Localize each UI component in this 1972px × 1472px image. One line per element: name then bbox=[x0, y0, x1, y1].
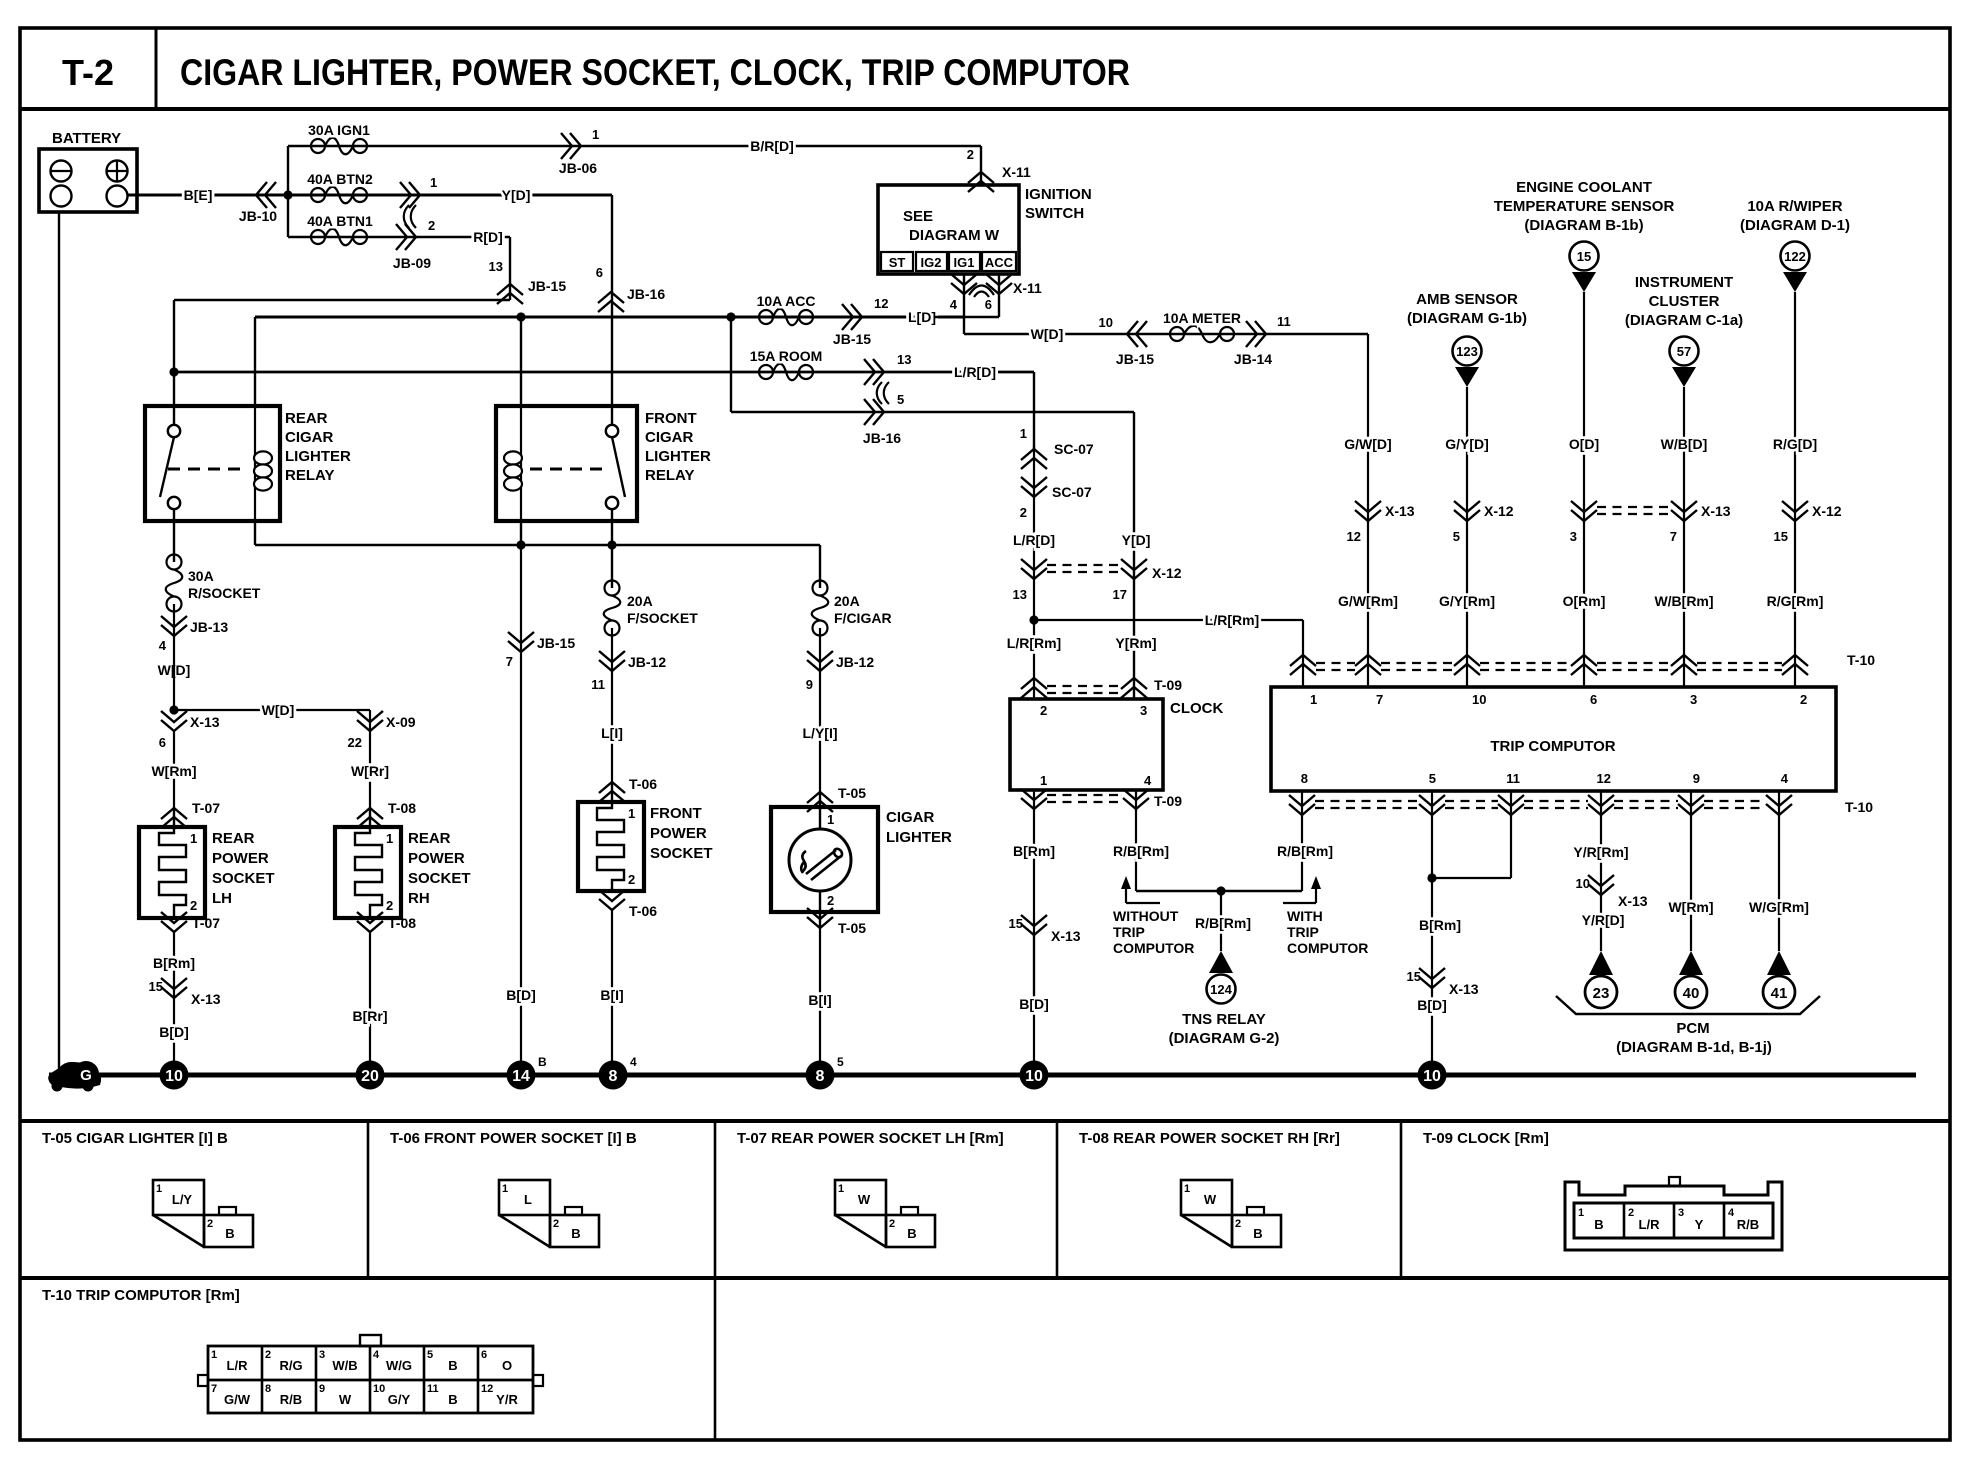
ground point 10 trip bbox=[1418, 1061, 1447, 1090]
fuse 10A ACC bbox=[757, 293, 816, 325]
wire Y[D] clock drop bbox=[1133, 412, 1135, 699]
svg-text:2: 2 bbox=[827, 893, 834, 908]
header T-07 bbox=[737, 1130, 1004, 1147]
svg-text:3: 3 bbox=[1690, 692, 1697, 707]
svg-text:1: 1 bbox=[1184, 1183, 1190, 1195]
svg-text:15: 15 bbox=[1577, 249, 1591, 264]
svg-text:WITH: WITH bbox=[1287, 908, 1323, 924]
connector JB-13 pin 4 bbox=[159, 616, 229, 653]
wire L/R junction drop bbox=[1033, 579, 1035, 699]
rear power socket LH label bbox=[212, 830, 275, 907]
svg-text:1: 1 bbox=[827, 812, 834, 827]
connector JB-06 pin 1 on BTN2 row bbox=[400, 175, 437, 208]
connector link dashes T-09 upper bbox=[1047, 686, 1121, 693]
connector T-05 upper bbox=[807, 785, 866, 812]
svg-text:JB-09: JB-09 bbox=[393, 255, 431, 271]
connector X-13 pin 15 bbox=[149, 978, 221, 1007]
circle ref 40 PCM bbox=[1675, 976, 1707, 1008]
wire label L/R[D] column bbox=[1013, 497, 1055, 579]
svg-text:15: 15 bbox=[1774, 529, 1788, 544]
svg-text:T-09: T-09 bbox=[1154, 677, 1182, 693]
svg-text:ENGINE COOLANT: ENGINE COOLANT bbox=[1516, 179, 1652, 196]
svg-text:2: 2 bbox=[1040, 703, 1047, 718]
svg-text:SOCKET: SOCKET bbox=[650, 845, 713, 862]
svg-text:LH: LH bbox=[212, 890, 232, 907]
svg-text:L/R[Rm]: L/R[Rm] bbox=[1205, 612, 1259, 628]
svg-text:3: 3 bbox=[1140, 703, 1147, 718]
svg-text:SEE: SEE bbox=[903, 208, 933, 225]
connector X-13 pin 7 bbox=[1670, 501, 1731, 544]
svg-text:8: 8 bbox=[1301, 771, 1308, 786]
wire label B[Rm] pin5 bbox=[1419, 917, 1461, 933]
svg-text:3: 3 bbox=[319, 1349, 325, 1361]
triangle TNS relay bbox=[1209, 951, 1233, 973]
svg-text:T-10 TRIP COMPUTOR [Rm]: T-10 TRIP COMPUTOR [Rm] bbox=[42, 1287, 240, 1304]
svg-text:W: W bbox=[858, 1192, 871, 1207]
svg-text:T-06 FRONT POWER SOCKET [I] B: T-06 FRONT POWER SOCKET [I] B bbox=[390, 1130, 637, 1147]
svg-text:W: W bbox=[339, 1392, 352, 1407]
svg-text:Y/R: Y/R bbox=[496, 1392, 518, 1407]
svg-text:L/R[Rm]: L/R[Rm] bbox=[1007, 635, 1061, 651]
circle ref 23 PCM bbox=[1585, 976, 1617, 1008]
node front switch bottom junction bbox=[607, 540, 616, 549]
svg-text:14: 14 bbox=[512, 1068, 530, 1085]
header T-08 bbox=[1079, 1130, 1340, 1147]
svg-text:G/W[D]: G/W[D] bbox=[1344, 436, 1391, 452]
wire trip pin12 column bbox=[1600, 815, 1602, 951]
wire R/B junction row bbox=[1136, 890, 1302, 892]
svg-text:PCM: PCM bbox=[1676, 1020, 1709, 1037]
svg-text:JB-12: JB-12 bbox=[836, 654, 874, 670]
relay K1 label bbox=[285, 410, 351, 484]
connector T-06 front power socket pinout bbox=[499, 1180, 599, 1247]
svg-text:B: B bbox=[907, 1226, 916, 1241]
svg-text:11: 11 bbox=[427, 1383, 439, 1395]
svg-text:DIAGRAM W: DIAGRAM W bbox=[909, 227, 1000, 244]
svg-text:10: 10 bbox=[1472, 692, 1486, 707]
ground point 8 front socket bbox=[599, 1055, 638, 1090]
svg-text:3: 3 bbox=[1570, 529, 1577, 544]
connector table divider T05/T06 bbox=[367, 1121, 370, 1278]
svg-text:X-13: X-13 bbox=[1618, 893, 1648, 909]
cigar lighter label bbox=[886, 809, 952, 846]
connector SC-07 pin 1 bbox=[1020, 426, 1094, 469]
svg-text:4: 4 bbox=[1144, 773, 1152, 788]
svg-text:LIGHTER: LIGHTER bbox=[645, 448, 711, 465]
wire rear relay feed horizontal bbox=[174, 299, 510, 301]
svg-text:13: 13 bbox=[1013, 587, 1027, 602]
trip computor top pin numbers bbox=[1310, 692, 1807, 707]
svg-text:2: 2 bbox=[1020, 505, 1027, 520]
svg-text:B: B bbox=[448, 1392, 457, 1407]
svg-text:9: 9 bbox=[1693, 771, 1700, 786]
svg-text:RELAY: RELAY bbox=[285, 467, 334, 484]
svg-text:5: 5 bbox=[1429, 771, 1436, 786]
svg-text:41: 41 bbox=[1771, 985, 1788, 1002]
svg-text:W/G: W/G bbox=[386, 1358, 412, 1373]
svg-text:JB-15: JB-15 bbox=[528, 278, 566, 294]
svg-text:T-10: T-10 bbox=[1845, 799, 1873, 815]
arrow up without trip computor bbox=[1121, 876, 1160, 903]
svg-text:CLUSTER: CLUSTER bbox=[1649, 293, 1720, 310]
wire fuse to JB-13 bbox=[173, 604, 175, 636]
svg-text:B[D]: B[D] bbox=[1417, 997, 1447, 1013]
connector T-05 lower bbox=[807, 908, 866, 936]
connector T-10 lower row bbox=[1289, 791, 1873, 815]
svg-text:L/Y: L/Y bbox=[172, 1192, 193, 1207]
fuse 30A IGN1 bbox=[308, 122, 370, 154]
svg-text:Y: Y bbox=[1695, 1217, 1704, 1232]
svg-text:LIGHTER: LIGHTER bbox=[886, 829, 952, 846]
svg-text:(DIAGRAM C-1a): (DIAGRAM C-1a) bbox=[1625, 312, 1743, 329]
svg-text:CIGAR LIGHTER, POWER SOCKET, C: CIGAR LIGHTER, POWER SOCKET, CLOCK, TRIP… bbox=[180, 52, 1130, 93]
wire W[D] meter row bbox=[964, 333, 1368, 335]
trip computor U1 bbox=[1271, 687, 1836, 791]
connector X-09 pin 22 bbox=[348, 710, 416, 750]
svg-text:ST: ST bbox=[889, 255, 906, 270]
svg-text:L/R: L/R bbox=[1639, 1217, 1661, 1232]
svg-text:20A: 20A bbox=[834, 593, 860, 609]
connector T-09 lower pin1 bbox=[1021, 789, 1047, 809]
svg-text:REAR: REAR bbox=[285, 410, 328, 427]
svg-text:W/B[Rm]: W/B[Rm] bbox=[1654, 593, 1713, 609]
svg-text:6: 6 bbox=[159, 735, 166, 750]
svg-text:CIGAR: CIGAR bbox=[645, 429, 694, 446]
sensor ref 122 rear wiper fuse bbox=[1740, 198, 1850, 292]
connector JB-16 pin 6 bbox=[596, 265, 666, 312]
wire 15A ROOM row bbox=[174, 371, 1034, 374]
connector T-09 upper pin2 bbox=[1021, 678, 1047, 698]
connector T-07 upper bbox=[161, 800, 220, 828]
triangle PCM 41 bbox=[1767, 951, 1791, 975]
wire G/W column bbox=[1367, 334, 1369, 687]
connector T-10 trip computor pinout bbox=[198, 1335, 543, 1413]
svg-text:L: L bbox=[524, 1192, 532, 1207]
relay K1 rear cigar lighter relay bbox=[145, 406, 280, 521]
connector X-13 pin 12 bbox=[1347, 501, 1415, 544]
svg-text:3: 3 bbox=[1678, 1207, 1684, 1219]
connector JB-15 pin 7 bbox=[506, 632, 576, 669]
ignition switch cell IG2 bbox=[916, 252, 947, 271]
wire label W/B[D] bbox=[1661, 436, 1708, 452]
wire fsocket fuse to JB-12 bbox=[611, 628, 613, 671]
ignition switch cell ACC bbox=[982, 252, 1016, 271]
svg-text:15A ROOM: 15A ROOM bbox=[750, 348, 823, 364]
svg-text:R/B[Rm]: R/B[Rm] bbox=[1113, 843, 1169, 859]
connector JB-15 pin 10 bbox=[1099, 315, 1155, 367]
connector X-13 pin 10 bbox=[1576, 875, 1648, 909]
svg-text:W/B[D]: W/B[D] bbox=[1661, 436, 1708, 452]
ground symbol G car body bbox=[48, 1061, 101, 1092]
connector JB-06 pin 1 bbox=[559, 127, 599, 176]
svg-text:(DIAGRAM D-1): (DIAGRAM D-1) bbox=[1740, 217, 1850, 234]
wire label B/R[D] bbox=[750, 138, 794, 154]
ground point 14 bbox=[507, 1055, 548, 1090]
wire label L/R[D] bbox=[954, 364, 996, 380]
svg-text:L/R: L/R bbox=[227, 1358, 249, 1373]
svg-text:R/B[Rm]: R/B[Rm] bbox=[1195, 915, 1251, 931]
fuse 20A F/SOCKET bbox=[604, 581, 698, 636]
wire Y[D] drop to front relay bbox=[611, 195, 613, 425]
connector X-12 pin 15 bbox=[1774, 501, 1842, 544]
text without trip computor bbox=[1113, 908, 1194, 956]
connector X-12 pin 5 bbox=[1453, 501, 1514, 544]
connector link curl JB-06/JB-09 bbox=[404, 205, 416, 228]
svg-text:8: 8 bbox=[609, 1068, 618, 1085]
svg-text:JB-16: JB-16 bbox=[627, 286, 665, 302]
svg-text:10: 10 bbox=[1423, 1068, 1441, 1085]
wire W[D] branch to X-09 bbox=[174, 709, 370, 711]
svg-text:T-07: T-07 bbox=[192, 800, 220, 816]
wire label W[D] branch bbox=[262, 702, 295, 718]
ground point 20 RH socket bbox=[356, 1061, 385, 1090]
svg-text:FRONT: FRONT bbox=[645, 410, 697, 427]
svg-text:B[D]: B[D] bbox=[1019, 996, 1049, 1012]
ignition switch label bbox=[1025, 186, 1092, 222]
wire ignition pin6 drop bbox=[998, 274, 1000, 317]
cigar lighter box bbox=[771, 792, 878, 928]
svg-text:2: 2 bbox=[628, 872, 635, 887]
wire G/Y column bbox=[1466, 387, 1468, 687]
connector X-11 pin 2 bbox=[967, 147, 1031, 192]
svg-text:15: 15 bbox=[1009, 916, 1023, 931]
wire label B[D] 14 bbox=[506, 987, 536, 1003]
wire relay bus to ground 14 bbox=[520, 545, 522, 1061]
svg-text:1: 1 bbox=[156, 1183, 162, 1195]
wire fuse feeder bus bbox=[287, 146, 289, 237]
arrow up with trip computor bbox=[1283, 876, 1321, 903]
svg-text:X-13: X-13 bbox=[1701, 503, 1731, 519]
svg-text:1: 1 bbox=[502, 1183, 508, 1195]
svg-text:(DIAGRAM G-1b): (DIAGRAM G-1b) bbox=[1407, 310, 1527, 327]
wire label L/R[Rm] column bbox=[1007, 635, 1061, 651]
svg-text:40A BTN2: 40A BTN2 bbox=[307, 171, 373, 187]
wire W/B column bbox=[1683, 387, 1685, 687]
svg-text:4: 4 bbox=[630, 1055, 637, 1069]
node L/R[Rm] junction bbox=[1029, 615, 1038, 624]
clock box bbox=[1010, 699, 1163, 790]
ground point 8 cigar bbox=[806, 1055, 845, 1090]
svg-text:2: 2 bbox=[207, 1218, 213, 1230]
fuse 10A METER bbox=[1163, 310, 1241, 342]
svg-text:T-05: T-05 bbox=[838, 785, 866, 801]
svg-text:O: O bbox=[502, 1358, 512, 1373]
wire trip pin9 column bbox=[1668, 815, 1713, 951]
node room row tap bbox=[169, 367, 178, 376]
wire label W[D] bbox=[1031, 326, 1064, 342]
svg-text:JB-16: JB-16 bbox=[863, 430, 901, 446]
wire label R[D] bbox=[473, 229, 503, 245]
circle ref 124 TNS relay bbox=[1207, 975, 1236, 1004]
connector link dashes X-12 bbox=[1047, 565, 1121, 572]
wire JB-16 room branch row bbox=[731, 411, 1134, 413]
svg-text:AMB SENSOR: AMB SENSOR bbox=[1416, 291, 1518, 308]
connector X-13 pin 6 bbox=[159, 711, 220, 750]
svg-text:5: 5 bbox=[427, 1349, 433, 1361]
svg-text:R/G[D]: R/G[D] bbox=[1773, 436, 1817, 452]
wire label B[Rr] bbox=[353, 932, 388, 1061]
svg-text:FRONT: FRONT bbox=[650, 805, 702, 822]
svg-text:SC-07: SC-07 bbox=[1052, 484, 1092, 500]
connector X-13 pin 3 bbox=[1570, 501, 1597, 544]
node W[D] branch junction bbox=[169, 705, 178, 714]
svg-text:T-2: T-2 bbox=[62, 52, 114, 93]
svg-text:Y/R[D]: Y/R[D] bbox=[1582, 912, 1625, 928]
svg-text:30A: 30A bbox=[188, 568, 214, 584]
svg-text:JB-15: JB-15 bbox=[833, 331, 871, 347]
svg-text:5: 5 bbox=[1453, 529, 1460, 544]
svg-text:CIGAR: CIGAR bbox=[285, 429, 334, 446]
svg-text:1: 1 bbox=[386, 831, 393, 846]
connector JB-09 pin 2 bbox=[393, 218, 435, 271]
svg-text:BATTERY: BATTERY bbox=[52, 130, 121, 147]
svg-text:W[Rr]: W[Rr] bbox=[351, 763, 389, 779]
wire label B[Rm] bbox=[153, 932, 195, 998]
svg-text:(DIAGRAM B-1b): (DIAGRAM B-1b) bbox=[1524, 217, 1643, 234]
svg-text:R/B: R/B bbox=[280, 1392, 302, 1407]
svg-text:B[I]: B[I] bbox=[808, 992, 831, 1008]
svg-text:L[I]: L[I] bbox=[601, 725, 623, 741]
svg-text:X-12: X-12 bbox=[1484, 503, 1514, 519]
svg-text:11: 11 bbox=[591, 677, 605, 692]
svg-text:IG1: IG1 bbox=[954, 255, 975, 270]
svg-text:B[D]: B[D] bbox=[159, 1024, 189, 1040]
svg-text:4: 4 bbox=[950, 297, 958, 312]
svg-text:1: 1 bbox=[1578, 1207, 1584, 1219]
svg-text:B[E]: B[E] bbox=[184, 187, 213, 203]
svg-text:JB-15: JB-15 bbox=[1116, 351, 1154, 367]
svg-text:B[Rr]: B[Rr] bbox=[353, 1008, 388, 1024]
svg-text:X-13: X-13 bbox=[191, 991, 221, 1007]
svg-text:B: B bbox=[538, 1055, 547, 1069]
svg-text:1: 1 bbox=[1040, 773, 1047, 788]
connector T-08 lower bbox=[357, 912, 416, 932]
relay K2 label bbox=[645, 410, 711, 484]
wire clock pin4 drop bbox=[1135, 809, 1137, 891]
wire label Y[D] column bbox=[1122, 532, 1151, 548]
svg-text:JB-10: JB-10 bbox=[239, 208, 277, 224]
svg-text:5: 5 bbox=[837, 1055, 844, 1069]
svg-text:(DIAGRAM G-2): (DIAGRAM G-2) bbox=[1169, 1030, 1280, 1047]
svg-text:W: W bbox=[1204, 1192, 1217, 1207]
svg-text:TRIP COMPUTOR: TRIP COMPUTOR bbox=[1490, 738, 1615, 755]
svg-text:JB-15: JB-15 bbox=[537, 635, 575, 651]
connector T-08 rear power socket RH pinout bbox=[1181, 1180, 1281, 1247]
fuse 15A ROOM bbox=[750, 348, 823, 380]
svg-text:LIGHTER: LIGHTER bbox=[285, 448, 351, 465]
svg-text:2: 2 bbox=[553, 1218, 559, 1230]
svg-text:R/B[Rm]: R/B[Rm] bbox=[1277, 843, 1333, 859]
svg-text:30A IGN1: 30A IGN1 bbox=[308, 122, 370, 138]
battery B1 bbox=[39, 149, 137, 212]
svg-text:T-08: T-08 bbox=[388, 800, 416, 816]
title bar divider bbox=[155, 28, 158, 109]
rear power socket LH box bbox=[139, 808, 205, 918]
svg-text:20: 20 bbox=[361, 1068, 379, 1085]
svg-text:23: 23 bbox=[1593, 985, 1610, 1002]
connector JB-12 pin 11 bbox=[591, 651, 666, 692]
svg-text:L/R[D]: L/R[D] bbox=[1013, 532, 1055, 548]
fuse 20A F/CIGAR bbox=[812, 581, 892, 636]
svg-text:RH: RH bbox=[408, 890, 430, 907]
node front coil bottom junction bbox=[516, 540, 525, 549]
connector JB-10 bbox=[239, 182, 277, 224]
svg-text:WITHOUT: WITHOUT bbox=[1113, 908, 1179, 924]
svg-text:COMPUTOR: COMPUTOR bbox=[1113, 940, 1194, 956]
svg-text:POWER: POWER bbox=[212, 850, 269, 867]
node fuse bus junction bbox=[283, 190, 292, 199]
svg-text:7: 7 bbox=[506, 654, 513, 669]
svg-text:G: G bbox=[80, 1067, 92, 1084]
svg-text:13: 13 bbox=[489, 259, 503, 274]
connector X-12 pin 17 bbox=[1113, 559, 1182, 602]
node front coil junction bbox=[516, 312, 525, 321]
header T-10 bbox=[42, 1287, 240, 1304]
TNS relay label bbox=[1169, 1011, 1280, 1047]
connector T-06 upper bbox=[599, 776, 657, 802]
svg-text:G/Y: G/Y bbox=[388, 1392, 411, 1407]
svg-text:W[Rm]: W[Rm] bbox=[1668, 899, 1713, 915]
ignition switch cell ST bbox=[881, 252, 913, 271]
connector table divider T07/T08 bbox=[1056, 1121, 1059, 1278]
svg-text:B: B bbox=[1253, 1226, 1262, 1241]
svg-text:4: 4 bbox=[373, 1349, 380, 1361]
sensor ref 15 engine coolant temperature sensor bbox=[1494, 179, 1675, 292]
svg-text:TRIP: TRIP bbox=[1287, 924, 1319, 940]
svg-text:1: 1 bbox=[592, 127, 599, 142]
wire label L[I] bbox=[601, 671, 623, 782]
header T-09 bbox=[1423, 1130, 1549, 1147]
wire label O[Rm] bbox=[1563, 593, 1606, 609]
svg-text:T-06: T-06 bbox=[629, 903, 657, 919]
svg-text:1: 1 bbox=[190, 831, 197, 846]
wire label L/Y[I] bbox=[803, 671, 838, 792]
svg-text:B/R[D]: B/R[D] bbox=[750, 138, 794, 154]
svg-text:Y[D]: Y[D] bbox=[502, 187, 531, 203]
wire front coil ground drop bbox=[520, 521, 522, 545]
ground point 10 clock bbox=[1020, 1061, 1049, 1090]
wire label L/R[Rm] horizontal bbox=[1205, 612, 1259, 628]
wire battery positive B[E] bbox=[128, 194, 289, 197]
svg-text:L[D]: L[D] bbox=[908, 309, 936, 325]
connector JB-15 pin 13 room bbox=[864, 352, 911, 385]
wire R[D] drop bbox=[509, 237, 511, 300]
svg-text:T-05 CIGAR LIGHTER [I] B: T-05 CIGAR LIGHTER [I] B bbox=[42, 1130, 228, 1147]
wire label Y/R[D] bbox=[1582, 912, 1625, 928]
ignition switch cell IG1 bbox=[949, 252, 980, 271]
wire 40A BTN1 row bbox=[288, 236, 510, 238]
wire front switch to fuse bbox=[611, 509, 613, 588]
wire 40A BTN2 row Y[D] bbox=[288, 194, 612, 197]
svg-text:B: B bbox=[571, 1226, 580, 1241]
svg-text:4: 4 bbox=[1728, 1207, 1735, 1219]
svg-text:POWER: POWER bbox=[650, 825, 707, 842]
wire label G/W[Rm] bbox=[1338, 593, 1398, 609]
svg-text:10: 10 bbox=[1099, 315, 1113, 330]
svg-text:ACC: ACC bbox=[985, 255, 1014, 270]
wire label W[Rm] bbox=[151, 731, 196, 808]
front power socket label bbox=[650, 805, 713, 862]
svg-text:T-09 CLOCK [Rm]: T-09 CLOCK [Rm] bbox=[1423, 1130, 1549, 1147]
svg-text:X-12: X-12 bbox=[1152, 565, 1182, 581]
triangle PCM 40 bbox=[1679, 951, 1703, 975]
connector table mid rule bbox=[20, 1276, 1950, 1280]
svg-text:13: 13 bbox=[897, 352, 911, 367]
svg-text:T-07: T-07 bbox=[192, 915, 220, 931]
title index text T-2 bbox=[62, 52, 114, 93]
connector T-07 lower bbox=[161, 912, 220, 932]
svg-text:X-13: X-13 bbox=[1449, 981, 1479, 997]
